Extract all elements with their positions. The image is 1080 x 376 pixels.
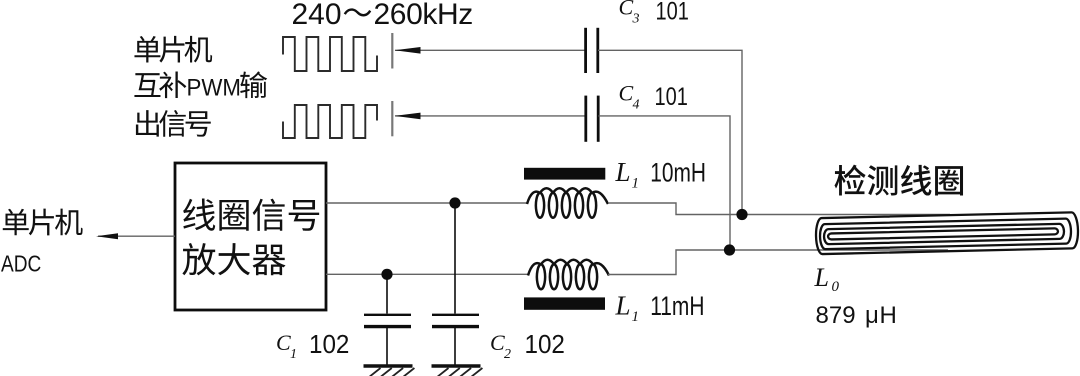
svg-text:101: 101 — [656, 0, 689, 25]
svg-text:879: 879 — [816, 302, 856, 329]
svg-text:C: C — [619, 80, 634, 105]
ground for C1 — [364, 366, 415, 376]
capacitor C4 — [586, 96, 598, 142]
svg-text:1: 1 — [632, 176, 640, 192]
svg-text:L: L — [615, 291, 631, 321]
arrow wire into PWM 2 — [395, 113, 587, 120]
wire box to L1 top — [326, 202, 528, 204]
label C2 102 — [490, 330, 565, 362]
ground for C2 — [432, 366, 483, 376]
label C1 102 — [276, 330, 349, 362]
svg-text:L: L — [814, 263, 829, 292]
svg-text:0: 0 — [832, 279, 840, 295]
wire L1 top to node A — [608, 203, 950, 215]
svg-text:1: 1 — [290, 347, 297, 362]
capacitor C1 — [364, 274, 411, 364]
svg-text:11mH: 11mH — [650, 292, 704, 322]
svg-text:H: H — [880, 302, 897, 329]
inductor L1 bottom coil — [528, 260, 609, 289]
label L1 10mH — [615, 157, 706, 192]
junction node bottom (C1 tap) — [381, 269, 392, 280]
svg-text:μ: μ — [865, 302, 879, 329]
terminal bar 2 — [391, 101, 393, 136]
amplifier box 线圈信号放大器 — [175, 163, 326, 310]
box label 线圈信号 放大器 — [182, 199, 319, 276]
junction node A — [736, 209, 747, 220]
wire C3 to node A — [598, 50, 742, 211]
PWM waveform 2 — [283, 105, 377, 138]
inductor L1 bottom core bar — [524, 297, 605, 309]
svg-text:ADC: ADC — [1, 252, 41, 277]
label C4 101 — [619, 80, 688, 112]
label 单片机 互补PWM输 出信号 — [134, 36, 267, 137]
wire C4 to node B — [598, 116, 730, 247]
svg-text:1: 1 — [632, 309, 640, 325]
svg-text:240: 240 — [292, 0, 342, 31]
wire L1 bottom to node B — [608, 250, 948, 275]
label L1 11mH — [615, 291, 705, 326]
junction node top (C2 tap) — [449, 197, 460, 208]
svg-text:2: 2 — [504, 347, 511, 362]
capacitor C2 — [432, 203, 479, 365]
svg-text:10mH: 10mH — [650, 158, 706, 188]
terminal bar 1 — [391, 33, 393, 69]
junction node B — [724, 244, 735, 255]
wire box to L1 bottom — [326, 273, 528, 275]
svg-text:L: L — [615, 157, 631, 187]
label 单片机 ADC — [1, 209, 83, 277]
svg-text:3: 3 — [632, 12, 640, 27]
svg-text:260kHz: 260kHz — [374, 0, 473, 31]
svg-text:C: C — [619, 0, 634, 19]
PWM waveform 1 — [283, 37, 377, 71]
svg-text:102: 102 — [309, 330, 349, 359]
svg-text:C: C — [276, 330, 291, 355]
svg-text:4: 4 — [633, 98, 640, 113]
svg-text:102: 102 — [525, 330, 565, 359]
label L0 879uH — [814, 263, 897, 329]
capacitor C3 — [586, 28, 598, 73]
label C3 101 — [619, 0, 689, 27]
label 检测线圈 — [834, 165, 963, 196]
svg-text:C: C — [490, 330, 505, 355]
arrow to MCU ADC — [96, 233, 175, 239]
inductor L1 top core bar — [524, 168, 605, 180]
arrow wire into PWM 1 — [395, 47, 586, 54]
detection coil L0 — [816, 212, 1079, 254]
svg-text:101: 101 — [655, 83, 688, 111]
label frequency 240~260kHz — [292, 0, 473, 31]
inductor L1 top coil — [527, 188, 608, 217]
svg-text:PWM: PWM — [187, 73, 241, 100]
